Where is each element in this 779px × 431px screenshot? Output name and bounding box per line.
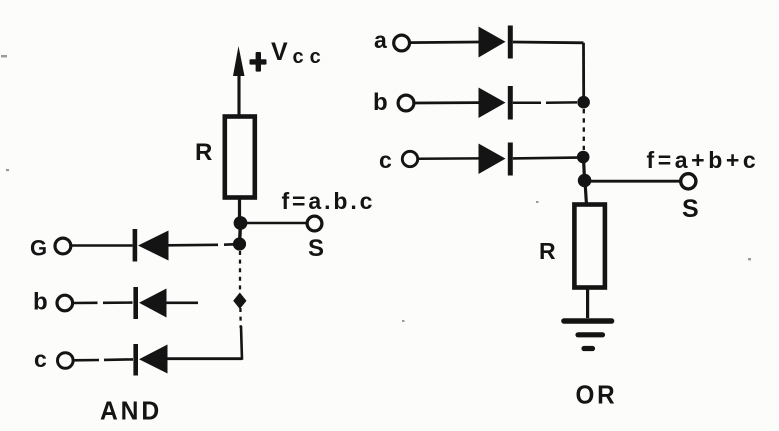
resistor R2: [574, 205, 605, 288]
wire corner down (a branch riser): [582, 43, 585, 102]
diode D3 (input c, AND): [133, 344, 167, 376]
node b-row junction (diamond): [233, 293, 246, 310]
wire node1 to node2: [240, 223, 241, 244]
terminal S (AND output): [307, 216, 322, 231]
svg-text:R: R: [539, 238, 556, 264]
wire output to terminal S: [246, 222, 307, 225]
terminal S (OR output): [681, 174, 696, 189]
wire diode D3 to corner: [168, 357, 243, 360]
svg-text:b: b: [373, 89, 388, 116]
svg-text:G: G: [30, 236, 47, 261]
node b junction (OR): [577, 96, 590, 109]
wire c junction to f node: [584, 157, 585, 181]
wire dashed riser b to c (OR): [583, 109, 585, 150]
wire dashed riser (node to b/c rows): [239, 251, 242, 328]
power +Vcc arrow: [233, 46, 245, 115]
wire input a to diode D4: [410, 41, 479, 44]
wire input c to diode D3: [73, 358, 133, 361]
svg-text:b: b: [33, 289, 48, 316]
wire diode D5 to node: [513, 101, 577, 104]
ground: [564, 321, 612, 349]
wire f node to resistor R2: [585, 181, 587, 205]
wire diode D4 to corner: [513, 41, 584, 45]
svg-text:OR: OR: [576, 380, 618, 410]
node a-row junction: [233, 237, 246, 250]
svg-text:cc: cc: [293, 46, 327, 68]
wire diode D6 to node: [513, 156, 577, 159]
svg-text:f=a+b+c: f=a+b+c: [647, 147, 760, 173]
wire input c to diode D6: [418, 157, 479, 160]
label +Vcc: [250, 38, 327, 72]
wire input b to diode D2: [73, 301, 133, 304]
node c junction (OR): [577, 151, 590, 164]
diode D1 (input a, AND): [133, 229, 169, 262]
wire output to terminal S (OR): [591, 180, 681, 183]
svg-text:c: c: [34, 346, 47, 372]
diode D4 (input a, OR): [479, 26, 513, 59]
wire input a to diode D1: [71, 244, 133, 247]
svg-text:V: V: [271, 38, 288, 66]
terminal input b (AND): [57, 295, 73, 311]
diode D5 (input b, OR): [479, 86, 513, 120]
diode D6 (input c, OR): [479, 143, 513, 176]
diode D2 (input b, AND): [133, 287, 166, 319]
node f-AND junction (output node): [234, 216, 248, 230]
wire input b to diode D5: [414, 101, 479, 104]
terminal input b (OR): [398, 95, 414, 111]
wire corner up (c branch riser, solid part): [241, 326, 242, 360]
node f-OR junction (output node): [578, 174, 592, 188]
wire diode D1 to node: [169, 244, 235, 245]
wire resistor bottom to node: [238, 199, 241, 221]
svg-text:R: R: [195, 139, 212, 166]
svg-text:c: c: [379, 147, 392, 173]
svg-text:AND: AND: [100, 396, 162, 426]
terminal input a (OR): [394, 35, 410, 51]
wire resistor R2 to ground: [586, 287, 589, 318]
svg-text:a: a: [374, 27, 387, 53]
svg-text:S: S: [682, 195, 699, 223]
scan speckles (decorative): [1, 55, 751, 322]
resistor R1: [225, 117, 255, 198]
svg-text:S: S: [308, 235, 324, 262]
wire diode D2 stub: [167, 301, 199, 304]
terminal input c (AND): [58, 353, 74, 369]
terminal input c (OR): [402, 151, 417, 166]
terminal input a (AND): [55, 238, 71, 254]
svg-text:f=a.b.c: f=a.b.c: [282, 188, 376, 214]
